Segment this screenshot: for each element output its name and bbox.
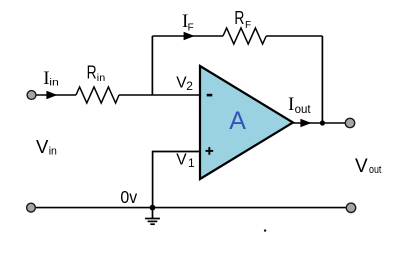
label Iout	[288, 94, 311, 116]
terminal bottom right	[346, 203, 355, 212]
svg-text:V: V	[355, 156, 368, 177]
svg-text:in: in	[49, 146, 57, 158]
svg-text:out: out	[295, 104, 312, 116]
svg-text:in: in	[97, 72, 106, 84]
resistor RF	[223, 28, 266, 44]
label Iin	[43, 68, 59, 89]
node junction output	[320, 120, 325, 125]
svg-text:F: F	[188, 23, 194, 34]
wire feedback top left	[152, 35, 223, 37]
stray period	[264, 229, 266, 231]
svg-text:I: I	[288, 94, 294, 115]
svg-text:R: R	[234, 8, 244, 28]
arrow Iout	[300, 119, 311, 127]
resistor Rin	[76, 87, 119, 103]
terminal output	[345, 118, 354, 127]
arrow IF	[184, 32, 195, 40]
terminal bottom left	[27, 203, 36, 212]
svg-text:1: 1	[188, 156, 195, 170]
ground	[145, 208, 160, 225]
arrow Iin	[46, 91, 57, 99]
svg-text:A: A	[229, 107, 246, 135]
svg-text:V: V	[36, 136, 49, 157]
op-amp minus sign	[207, 94, 213, 97]
wire input horizontal	[36, 94, 200, 96]
svg-text:2: 2	[186, 79, 193, 93]
svg-text:0v: 0v	[120, 187, 137, 207]
svg-text:in: in	[49, 77, 59, 89]
wire feedback top right	[266, 35, 322, 37]
op-amp plus sign	[206, 147, 214, 155]
wire non-inverting input	[153, 152, 200, 208]
wire feedback riser	[151, 36, 153, 95]
wire feedback right drop	[321, 36, 323, 123]
wire bottom rail	[36, 207, 347, 209]
svg-text:R: R	[87, 62, 97, 82]
label V1	[176, 152, 195, 170]
label IF	[182, 11, 194, 34]
label V2	[176, 75, 193, 93]
svg-text:out: out	[369, 164, 381, 176]
label Vout	[355, 156, 381, 177]
terminal input	[27, 91, 36, 100]
label Rin	[87, 62, 106, 84]
wire output	[293, 122, 346, 124]
label Vin	[36, 136, 57, 158]
node junction ground	[150, 205, 156, 211]
svg-text:V: V	[176, 152, 187, 169]
op-amp A	[200, 66, 293, 179]
svg-text:F: F	[245, 20, 251, 31]
label RF	[234, 8, 251, 31]
